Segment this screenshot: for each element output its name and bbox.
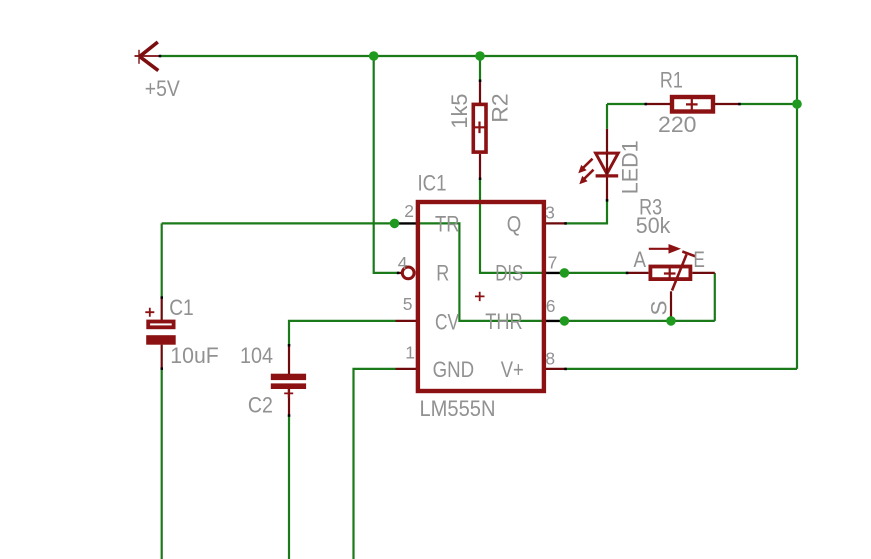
svg-text:Q: Q (507, 211, 522, 236)
resistor R2 (473, 104, 486, 152)
LED1 diode triangle (596, 153, 619, 174)
capacitor C2 top plate (271, 374, 306, 380)
black overlap pin2 (395, 222, 419, 224)
wire C1 top (161, 223, 163, 297)
junction pin2 TR (390, 219, 400, 229)
black joint ticks (159, 55, 741, 417)
junction pin6 THR (560, 316, 570, 326)
svg-text:C1: C1 (169, 295, 194, 320)
svg-text:6: 6 (546, 296, 556, 316)
svg-text:LM555N: LM555N (420, 396, 496, 421)
svg-text:8: 8 (545, 349, 555, 369)
LED1 cathode bar (596, 174, 619, 177)
R3 arrow above (649, 248, 670, 250)
lead IC pin8 V+ (543, 368, 566, 370)
lead R2 top (479, 81, 481, 103)
svg-text:GND: GND (433, 357, 475, 382)
capacitor C1 polarity plus (145, 308, 154, 317)
IC1 origin cross (475, 292, 485, 301)
svg-text:E: E (693, 247, 705, 272)
wire R2 top (479, 56, 481, 81)
junction pin7 DIS (560, 268, 570, 278)
lead IC pin5 CV (396, 320, 419, 322)
lead LED bottom (606, 176, 608, 200)
svg-text:7: 7 (548, 253, 558, 273)
LED1 emission arrow 1 (583, 159, 593, 168)
svg-text:104: 104 (240, 343, 273, 368)
svg-text:LED1: LED1 (618, 140, 643, 194)
svg-text:R1: R1 (660, 68, 683, 93)
wire top +5V rail (160, 55, 797, 57)
wire C2 bottom to edge (288, 416, 290, 559)
wire Q to LED (566, 200, 608, 223)
lead C1 top (161, 298, 163, 322)
svg-text:5: 5 (403, 294, 413, 314)
junction wiper S (666, 316, 676, 326)
wire reset net vertical + to pin4 (374, 56, 398, 273)
lead IC pin3 Q (543, 222, 566, 224)
wire THR row to R3 right (564, 320, 714, 322)
wire CV row (289, 321, 396, 345)
supply +5V arrow (135, 42, 161, 71)
svg-text:1k5: 1k5 (447, 94, 472, 129)
wire R2 bottom to DIS row (480, 179, 544, 273)
lead R3 S wiper stem (670, 291, 672, 321)
svg-text:DIS: DIS (495, 261, 523, 286)
svg-text:IC1: IC1 (418, 170, 447, 195)
svg-text:50k: 50k (636, 213, 671, 238)
wire LED top (606, 104, 608, 129)
svg-text:2: 2 (404, 201, 414, 221)
svg-text:TR: TR (435, 211, 460, 236)
svg-text:220: 220 (658, 112, 697, 137)
svg-text:S: S (647, 301, 672, 316)
wire C1 bottom to edge (161, 369, 163, 559)
wire right rail down to V+ row (796, 56, 798, 369)
capacitor C1 bottom plate (146, 335, 176, 345)
LED1 emission arrow 2 (584, 170, 594, 179)
R3 wiper crossbar (682, 252, 695, 257)
wire R3 E down (714, 273, 716, 321)
svg-text:1: 1 (405, 342, 415, 362)
lead IC pin4 stub (398, 272, 402, 274)
lead R2 bottom (479, 154, 481, 179)
wire TR horizontal from C1 (162, 222, 395, 224)
op pin4 inversion bubble (402, 267, 414, 279)
svg-text:R: R (436, 261, 449, 286)
junction top rail / reset (369, 51, 379, 61)
lead R3 A (627, 272, 648, 274)
wire GND net (354, 369, 396, 559)
pin leads dark red (162, 81, 740, 416)
LED1 vertical through (606, 153, 608, 176)
capacitor C1 top plate (148, 322, 173, 328)
lead C2 bottom (288, 389, 290, 416)
R3 wiper diagonal (672, 255, 687, 291)
lead R1 right (715, 103, 739, 105)
potentiometer R3 (650, 267, 690, 280)
lead IC pin1 GND (396, 368, 419, 370)
svg-text:A: A (634, 247, 647, 272)
lead R3 E (692, 272, 715, 274)
lead LED top (606, 129, 608, 153)
lead C1 bottom (161, 345, 163, 369)
black overlap pin7 (544, 272, 564, 274)
svg-text:R2: R2 (488, 93, 513, 123)
wire V+ to right rail (566, 368, 798, 370)
wire TR to THR bridge inside IC (418, 223, 544, 321)
svg-text:4: 4 (398, 253, 408, 273)
svg-text:THR: THR (485, 309, 523, 334)
capacitor C2 origin plus (284, 389, 293, 398)
junction dots (369, 51, 802, 326)
resistor R1 (672, 97, 713, 112)
svg-text:C2: C2 (248, 393, 273, 418)
svg-text:V+: V+ (501, 357, 524, 382)
wire R1 row right (739, 103, 797, 105)
black overlap pin6 (544, 320, 564, 322)
svg-text:CV: CV (435, 309, 459, 334)
svg-text:3: 3 (545, 203, 555, 223)
lead R1 left (646, 103, 670, 105)
IC1 LM555N box (418, 202, 544, 391)
lead C2 top (288, 345, 290, 374)
svg-text:+5V: +5V (145, 76, 180, 101)
wire DIS to R3 A (564, 272, 627, 274)
svg-text:10uF: 10uF (170, 343, 219, 368)
junction R1 / right rail (792, 99, 802, 109)
capacitor C2 bottom plate (271, 383, 306, 389)
junction top rail / R2 (475, 51, 485, 61)
wire R1 row left (607, 103, 646, 105)
